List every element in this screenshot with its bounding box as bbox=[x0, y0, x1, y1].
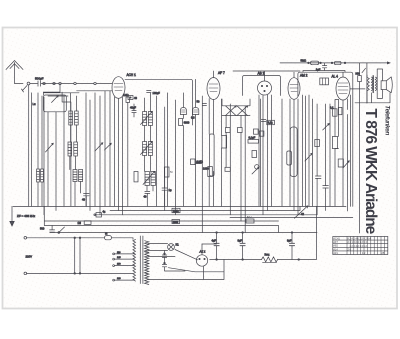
coupling box between tubes bbox=[320, 78, 329, 85]
wire top bbox=[61, 83, 74, 85]
svg-text:AM 2: AM 2 bbox=[300, 73, 308, 77]
resistor 4u box bbox=[96, 213, 101, 217]
wire top bbox=[76, 83, 94, 85]
tube AZ1 bbox=[196, 255, 207, 266]
transformer core bbox=[140, 236, 143, 284]
svg-text:1µF: 1µF bbox=[316, 68, 321, 72]
wire AL4 pins bbox=[339, 99, 348, 206]
resistor 1M b bbox=[191, 159, 195, 165]
coil L0a bbox=[37, 169, 40, 182]
tube AB2 bbox=[258, 81, 272, 95]
wire elco3 bbox=[291, 233, 293, 260]
shield frame AM2-AL4 bbox=[298, 72, 353, 206]
switch contact bbox=[74, 82, 76, 84]
transformer secondary windings bbox=[145, 241, 149, 253]
capacitor 40pF bbox=[132, 104, 136, 117]
wire jack drop bbox=[28, 85, 30, 206]
capacitor 50 left of AF7 bbox=[203, 104, 207, 106]
loop wave trap bbox=[43, 95, 66, 112]
wire top bbox=[30, 83, 38, 85]
svg-text:ACH1: ACH1 bbox=[333, 238, 340, 241]
svg-text:ACH 1: ACH 1 bbox=[127, 73, 137, 77]
wire L1 leads bbox=[71, 93, 77, 142]
wire speaker drop bbox=[359, 63, 361, 76]
wire verticals under AF7 bbox=[209, 99, 260, 233]
resistor 300 bbox=[358, 76, 362, 82]
tube ACH1 bbox=[112, 77, 125, 99]
trimmer arrow wavetrap bbox=[52, 96, 59, 103]
choke field coil bbox=[262, 257, 278, 262]
wire line under bus bbox=[303, 71, 345, 73]
wire L3 leads bbox=[75, 182, 81, 207]
wire speaker bottom bbox=[355, 93, 390, 103]
IF coil T3b bbox=[151, 172, 155, 186]
wire lamp leads bbox=[148, 244, 168, 251]
wire top bbox=[41, 83, 59, 85]
resistor 5000 tall bbox=[332, 137, 337, 149]
mains plug top bbox=[24, 237, 27, 240]
transformer OT core bbox=[372, 75, 375, 92]
trimmer arrow am2 bbox=[305, 153, 312, 161]
fuse Si bbox=[84, 221, 91, 225]
svg-text:1MΩ: 1MΩ bbox=[123, 93, 129, 97]
svg-text:AB 2: AB 2 bbox=[258, 71, 265, 75]
coil L3b bbox=[79, 170, 83, 182]
svg-text:1M: 1M bbox=[78, 222, 81, 225]
wire AZ1 leads bbox=[148, 244, 224, 280]
svg-text:Lu: Lu bbox=[33, 102, 37, 106]
capacitor p2 bbox=[162, 264, 166, 266]
switch contact b bbox=[43, 82, 45, 84]
bus line 4 bbox=[44, 217, 353, 221]
can tall C bbox=[210, 134, 215, 176]
junction line al4 bbox=[335, 100, 339, 149]
wire after 300 bbox=[350, 82, 365, 233]
svg-text:0,1µF: 0,1µF bbox=[249, 136, 256, 140]
wire can leads bbox=[183, 79, 195, 206]
wire az1 to bus bbox=[202, 243, 217, 245]
wire speaker loop bbox=[377, 69, 382, 98]
voltage taps bbox=[115, 253, 135, 280]
svg-text:1µ: 1µ bbox=[169, 188, 172, 192]
svg-text:100pF: 100pF bbox=[153, 91, 161, 95]
wire AM2 top bbox=[293, 72, 295, 78]
resistor box r4 bbox=[208, 167, 213, 177]
resistor 1M box bus bbox=[172, 208, 180, 212]
svg-text:300: 300 bbox=[355, 72, 360, 76]
coil L1a bbox=[69, 111, 73, 125]
wire top bus bbox=[280, 62, 390, 64]
capacitor C gnd bbox=[84, 194, 90, 207]
trimmer arrow al4 b bbox=[343, 161, 349, 168]
capacitor al4 b bbox=[323, 186, 329, 188]
wire step from top bbox=[43, 84, 60, 96]
IF coil T2b bbox=[148, 142, 152, 156]
trimmer arrow T3 bbox=[143, 171, 155, 184]
wire vertical v9 bbox=[99, 96, 101, 215]
trimmer arrow T2 bbox=[141, 141, 153, 154]
wire antenna lead-in bbox=[15, 63, 24, 84]
IF coil T1a bbox=[143, 112, 147, 126]
wire vertical v5 bbox=[63, 96, 65, 206]
wire vertical v10 bbox=[104, 91, 106, 207]
svg-text:Netz: Netz bbox=[265, 253, 271, 256]
junction dots power bbox=[216, 232, 218, 234]
wire L2 leads bbox=[70, 156, 76, 170]
bandfilter cross X1 bbox=[226, 106, 237, 116]
resistor 50 bbox=[338, 159, 343, 167]
svg-text:40pF: 40pF bbox=[130, 106, 136, 110]
wire tube pins down bbox=[115, 97, 123, 215]
svg-text:500pF: 500pF bbox=[35, 77, 44, 81]
svg-text:8µF: 8µF bbox=[238, 239, 243, 243]
fuse Si2 bbox=[105, 236, 112, 240]
dial lamp bbox=[168, 244, 175, 251]
wire verticals AL4 area bbox=[309, 95, 350, 215]
svg-text:220V: 220V bbox=[26, 254, 33, 258]
electrolytic 4uF bbox=[214, 243, 219, 245]
switch contact bbox=[94, 82, 96, 84]
bandfilter cross X2 bbox=[237, 106, 248, 116]
wire mains bottom bbox=[27, 272, 133, 274]
capacitor 1uF bbox=[322, 63, 326, 71]
svg-text:2 4 1 6 2 4 1 2 6 4: 2 4 1 6 2 4 1 2 6 4 bbox=[348, 241, 368, 244]
switch contact bbox=[59, 82, 61, 84]
resistor oval A bbox=[311, 61, 319, 65]
tube AM2 bbox=[288, 78, 300, 100]
resistor box r1 bbox=[226, 128, 231, 133]
mains plug bottom bbox=[24, 272, 27, 275]
wire AL4 top bbox=[342, 72, 344, 77]
resistor box r7 bbox=[252, 151, 257, 158]
box ORO bbox=[267, 120, 275, 124]
svg-text:4 2 6 4 2 1 4 6 2: 4 2 6 4 2 1 4 6 2 bbox=[350, 245, 368, 248]
capacitor p1 bbox=[162, 255, 166, 257]
switch S1 bbox=[75, 238, 80, 274]
capacitor 40a bbox=[145, 191, 150, 206]
coil L3a bbox=[73, 170, 77, 182]
wire vertical v2 bbox=[47, 112, 49, 207]
box 0,1u bbox=[248, 140, 259, 144]
svg-text:T 876 WKK Ariadne: T 876 WKK Ariadne bbox=[362, 109, 379, 235]
wire vertical m6 bbox=[201, 96, 203, 233]
resistor 1M bbox=[126, 97, 130, 102]
switch contact c bbox=[53, 82, 55, 84]
coil L2b bbox=[74, 142, 78, 156]
pot 40ohm on tube bbox=[128, 96, 133, 100]
resistor box r2 bbox=[238, 128, 243, 133]
resistor box r5 bbox=[225, 167, 230, 171]
svg-text:0,3: 0,3 bbox=[191, 116, 195, 120]
wire bandfilter rails bbox=[222, 99, 250, 116]
wire frame over oscillator bbox=[125, 79, 193, 125]
table rows bbox=[333, 240, 388, 251]
box beside T3 bbox=[134, 172, 138, 182]
wire vertical v3 bbox=[55, 112, 57, 211]
transformer OT primary bbox=[371, 77, 373, 91]
resistor box r3 bbox=[254, 129, 259, 134]
junction dots top bus bbox=[308, 62, 310, 64]
wire vertical v1 bbox=[43, 97, 45, 215]
transformer OT secondary bbox=[375, 77, 377, 91]
capacitor cathode AL4 bbox=[333, 109, 337, 116]
wire vertical m3 bbox=[164, 107, 166, 211]
coil L1b bbox=[75, 111, 79, 125]
svg-text:6800: 6800 bbox=[184, 120, 190, 124]
capacitor al4 a bbox=[315, 176, 321, 178]
IF coil T3a bbox=[145, 172, 149, 186]
wire vertical v7 bbox=[89, 100, 91, 211]
wire elco2 bbox=[242, 233, 244, 260]
wire link top bbox=[44, 92, 79, 94]
svg-text:AL4: AL4 bbox=[333, 248, 338, 251]
svg-text:Telefunken: Telefunken bbox=[384, 105, 391, 135]
resistor zigzag output bbox=[367, 75, 369, 103]
svg-text:AF 7: AF 7 bbox=[218, 71, 225, 75]
svg-text:0,1: 0,1 bbox=[330, 106, 334, 110]
shield frame AB2 bbox=[243, 76, 281, 96]
wire T-leads bbox=[145, 93, 153, 191]
small circle pentode bbox=[255, 165, 259, 169]
ground arrow bbox=[10, 206, 14, 226]
wire AF7 pins bbox=[209, 99, 213, 135]
svg-text:ZF = 468 kHz: ZF = 468 kHz bbox=[17, 214, 36, 218]
svg-text:8,2 4,2 4,6 2,5 4,2 6,4: 8,2 4,2 4,6 2,5 4,2 6,4 bbox=[348, 238, 372, 241]
tube AF7 bbox=[207, 78, 220, 100]
svg-text:1 MΩ: 1 MΩ bbox=[197, 160, 203, 164]
svg-text:AZ1: AZ1 bbox=[333, 252, 338, 255]
wire AM2 pins bbox=[290, 99, 298, 215]
antenna bbox=[6, 61, 23, 70]
wire elco1 bbox=[216, 233, 218, 260]
bus line 1 bbox=[13, 205, 346, 207]
wire L0 leads bbox=[38, 93, 42, 207]
jack J1 bbox=[27, 82, 30, 85]
trimmer arrow T1 bbox=[46, 143, 54, 152]
wire caps join bbox=[165, 251, 186, 272]
svg-text:8µF: 8µF bbox=[287, 239, 292, 243]
resistor box under AB2 bbox=[260, 131, 264, 136]
capacitor under AB2 bbox=[261, 120, 266, 122]
wire vertical m2 bbox=[155, 96, 157, 206]
trimmer arrow T2 bbox=[95, 143, 103, 151]
switch bottom bbox=[59, 227, 65, 233]
potentiometer arrow bus bbox=[295, 206, 308, 218]
coil L0b bbox=[41, 169, 44, 182]
wire speaker vertical bbox=[366, 63, 368, 103]
resistor box busE bbox=[246, 219, 254, 223]
wire vertical v8 bbox=[94, 93, 96, 207]
wire vertical m4 bbox=[167, 93, 169, 207]
resistor 170 bbox=[315, 140, 320, 147]
tube AL4 bbox=[336, 77, 350, 100]
wire link h908 bbox=[77, 90, 112, 92]
wire vertical v6 bbox=[85, 93, 87, 207]
bus line 3 bbox=[95, 214, 317, 216]
wire vertical m5 bbox=[174, 100, 176, 215]
svg-text:1MΩ: 1MΩ bbox=[173, 209, 179, 213]
svg-text:4000: 4000 bbox=[173, 221, 179, 224]
table columns bbox=[347, 237, 384, 255]
wire dc rail bbox=[210, 206, 317, 259]
svg-text:5MΩ: 5MΩ bbox=[301, 58, 307, 62]
bus line 5 bbox=[44, 206, 317, 232]
svg-text:0,1µ: 0,1µ bbox=[268, 122, 273, 125]
can tall AM2 b bbox=[287, 151, 292, 165]
capacitor 500pF bbox=[38, 81, 41, 86]
trimmer arrow mid bbox=[252, 167, 259, 174]
wire fuse to trafo bbox=[112, 238, 134, 240]
wire vertical m1 bbox=[127, 102, 129, 206]
table tube data frame bbox=[333, 237, 388, 255]
can component A bbox=[180, 107, 186, 114]
svg-text:AB2: AB2 bbox=[333, 245, 338, 248]
svg-text:4µF: 4µF bbox=[212, 239, 217, 243]
capacitor 500pF bottom bbox=[50, 226, 55, 233]
svg-text:500: 500 bbox=[40, 226, 45, 230]
coil L2a bbox=[68, 142, 72, 156]
wire AF7 top bbox=[213, 71, 215, 78]
resistor 4000 box bbox=[172, 220, 180, 224]
bus line 2 bbox=[110, 206, 300, 210]
transformer primary winding bbox=[133, 239, 136, 281]
wire AB2 top bbox=[233, 71, 300, 81]
trimmer arrow T1 bbox=[141, 111, 153, 124]
IF coil T1b bbox=[148, 112, 152, 126]
svg-text:K1: K1 bbox=[176, 243, 180, 247]
box under AF7 bbox=[222, 136, 227, 149]
resistor 6800 bbox=[179, 119, 183, 126]
svg-text:1000: 1000 bbox=[203, 167, 209, 171]
svg-text:AL 4: AL 4 bbox=[332, 75, 339, 79]
resistor oval B bbox=[334, 61, 341, 64]
wire AB2 pins bbox=[259, 95, 272, 215]
capacitor 100pF bbox=[147, 91, 151, 93]
can component B bbox=[192, 107, 198, 114]
trimmer arrow al4 bbox=[323, 124, 330, 131]
trimmer arrow T3 bbox=[105, 143, 112, 150]
wire top to tube bbox=[96, 83, 112, 85]
electrolytic 8uF b bbox=[289, 243, 294, 245]
electrolytic 8uF a bbox=[240, 243, 245, 245]
can tall AM2 a bbox=[290, 127, 297, 177]
wire mains top bbox=[27, 237, 105, 239]
IF coil T2a bbox=[143, 142, 147, 156]
wire verticals right of AB2 bbox=[282, 95, 306, 206]
svg-text:AF7: AF7 bbox=[333, 241, 338, 244]
wire vertical v11 bbox=[109, 91, 111, 207]
wire link 2 bbox=[48, 95, 68, 97]
wire antenna tap down bbox=[22, 86, 28, 93]
speaker driver bbox=[381, 81, 386, 90]
speaker horn bbox=[386, 77, 392, 93]
resistor box r6 bbox=[164, 167, 169, 177]
wire vertical v0 bbox=[31, 93, 33, 207]
switch tick bbox=[362, 68, 366, 72]
capacitor 40b bbox=[162, 177, 167, 206]
table row labels bbox=[333, 238, 384, 255]
wire vertical v4 bbox=[62, 92, 71, 206]
